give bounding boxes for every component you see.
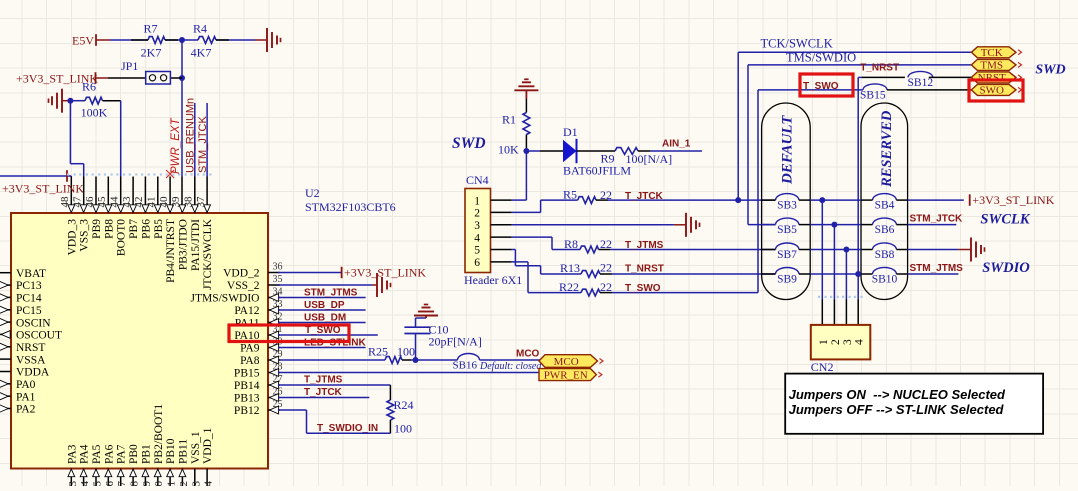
svg-text:SB3: SB3 bbox=[777, 199, 797, 211]
svg-text:AIN_1: AIN_1 bbox=[662, 139, 691, 150]
svg-text:T_SWDIO_IN: T_SWDIO_IN bbox=[317, 423, 378, 434]
svg-text:STM_JTMS: STM_JTMS bbox=[910, 263, 964, 274]
svg-text:PA3: PA3 bbox=[66, 444, 78, 464]
svg-text:PA15/JTDI: PA15/JTDI bbox=[190, 219, 202, 271]
svg-text:VSS_3: VSS_3 bbox=[79, 219, 91, 252]
svg-text:48: 48 bbox=[59, 196, 71, 208]
svg-text:41: 41 bbox=[146, 197, 158, 208]
svg-text:PB1: PB1 bbox=[140, 444, 152, 464]
svg-text:PA4: PA4 bbox=[79, 444, 91, 464]
svg-text:VDD_2: VDD_2 bbox=[223, 268, 260, 280]
svg-text:Jumpers OFF --> ST-LINK Select: Jumpers OFF --> ST-LINK Selected bbox=[789, 402, 1005, 417]
svg-text:SWCLK: SWCLK bbox=[980, 211, 1030, 227]
svg-text:VDD_1: VDD_1 bbox=[202, 427, 214, 464]
svg-text:USB_RENUMn: USB_RENUMn bbox=[185, 98, 197, 173]
svg-text:SWDIO: SWDIO bbox=[982, 260, 1030, 276]
svg-text:R4: R4 bbox=[193, 22, 207, 36]
svg-text:19: 19 bbox=[141, 481, 153, 487]
svg-text:T_JTCK: T_JTCK bbox=[304, 387, 343, 398]
svg-text:MCO: MCO bbox=[554, 356, 579, 368]
svg-text:OSCOUT: OSCOUT bbox=[16, 330, 62, 342]
svg-text:R9: R9 bbox=[601, 152, 615, 166]
svg-text:Jumpers ON --> NUCLEO Selecte: Jumpers ON --> NUCLEO Selected bbox=[789, 387, 1006, 402]
svg-text:2K7: 2K7 bbox=[141, 46, 162, 60]
svg-text:42: 42 bbox=[133, 197, 145, 208]
svg-text:STM_JTCK: STM_JTCK bbox=[197, 116, 209, 174]
svg-text:24: 24 bbox=[203, 481, 215, 487]
svg-text:18: 18 bbox=[129, 481, 141, 487]
svg-text:SB6: SB6 bbox=[875, 224, 895, 236]
svg-text:USB_DM: USB_DM bbox=[304, 313, 346, 324]
svg-text:VDDA: VDDA bbox=[16, 367, 50, 379]
svg-text:36: 36 bbox=[273, 261, 283, 272]
svg-text:PA8: PA8 bbox=[240, 355, 260, 367]
svg-text:R7: R7 bbox=[143, 22, 157, 36]
svg-text:Header 6X1: Header 6X1 bbox=[464, 273, 522, 287]
svg-text:PB14: PB14 bbox=[234, 380, 260, 392]
svg-text:VBAT: VBAT bbox=[16, 268, 46, 280]
svg-text:PWR_EXT: PWR_EXT bbox=[170, 117, 182, 174]
svg-text:21: 21 bbox=[166, 481, 178, 486]
svg-text:100: 100 bbox=[397, 345, 415, 359]
svg-text:14: 14 bbox=[79, 481, 91, 487]
svg-text:NRST: NRST bbox=[978, 72, 1006, 84]
svg-text:PA2: PA2 bbox=[16, 404, 36, 416]
svg-text:PA0: PA0 bbox=[16, 379, 36, 391]
svg-text:22: 22 bbox=[600, 237, 612, 251]
svg-text:22: 22 bbox=[600, 260, 612, 274]
svg-text:NRST: NRST bbox=[16, 342, 45, 354]
svg-text:PB3/JTDO: PB3/JTDO bbox=[177, 219, 189, 270]
svg-text:46: 46 bbox=[84, 196, 96, 208]
svg-text:35: 35 bbox=[273, 274, 283, 285]
svg-text:13: 13 bbox=[67, 481, 79, 487]
svg-text:SB15: SB15 bbox=[860, 90, 886, 102]
svg-text:22: 22 bbox=[178, 481, 190, 486]
svg-text:15: 15 bbox=[92, 481, 104, 487]
svg-text:20pF[N/A]: 20pF[N/A] bbox=[429, 335, 482, 349]
svg-text:Default: closed: Default: closed bbox=[479, 361, 542, 372]
svg-text:20: 20 bbox=[153, 481, 165, 487]
svg-text:CN2: CN2 bbox=[811, 360, 834, 374]
svg-text:44: 44 bbox=[109, 196, 121, 208]
svg-text:+3V3_ST_LINK: +3V3_ST_LINK bbox=[344, 266, 426, 280]
svg-text:PB0: PB0 bbox=[128, 444, 140, 464]
svg-text:R8: R8 bbox=[564, 237, 578, 251]
svg-text:DEFAULT: DEFAULT bbox=[780, 115, 796, 185]
svg-text:VDD_3: VDD_3 bbox=[66, 219, 78, 256]
svg-text:VSS_2: VSS_2 bbox=[227, 280, 260, 292]
svg-text:+3V3_ST_LINK: +3V3_ST_LINK bbox=[972, 193, 1054, 207]
svg-text:3: 3 bbox=[842, 339, 854, 345]
svg-text:47: 47 bbox=[71, 196, 83, 208]
svg-text:22: 22 bbox=[600, 280, 612, 294]
svg-text:STM_JTMS: STM_JTMS bbox=[304, 288, 358, 299]
svg-text:PA5: PA5 bbox=[91, 444, 103, 464]
svg-text:22: 22 bbox=[600, 188, 612, 202]
svg-text:T_JTMS: T_JTMS bbox=[304, 375, 343, 386]
svg-text:OSCIN: OSCIN bbox=[16, 317, 51, 329]
svg-text:5: 5 bbox=[474, 245, 480, 257]
svg-text:T_NRST: T_NRST bbox=[625, 264, 664, 275]
svg-text:T_JTCK: T_JTCK bbox=[625, 191, 664, 202]
svg-text:PB15: PB15 bbox=[234, 368, 260, 380]
svg-text:BOOT0: BOOT0 bbox=[116, 219, 128, 256]
svg-text:JTMS/SWDIO: JTMS/SWDIO bbox=[190, 293, 259, 305]
svg-text:PB11: PB11 bbox=[177, 439, 189, 464]
svg-text:R13: R13 bbox=[560, 261, 580, 275]
svg-text:SB9: SB9 bbox=[777, 273, 797, 285]
svg-text:PB6: PB6 bbox=[140, 219, 152, 239]
svg-text:R24: R24 bbox=[394, 398, 414, 412]
svg-text:SB5: SB5 bbox=[777, 224, 797, 236]
svg-text:45: 45 bbox=[96, 196, 108, 208]
svg-text:100: 100 bbox=[394, 422, 412, 436]
svg-text:STM32F103CBT6: STM32F103CBT6 bbox=[305, 200, 396, 214]
svg-text:PA9: PA9 bbox=[240, 343, 260, 355]
svg-text:PB4/JNTRST: PB4/JNTRST bbox=[165, 219, 177, 283]
svg-text:T_JTMS: T_JTMS bbox=[625, 240, 664, 251]
svg-text:TCK: TCK bbox=[981, 47, 1003, 59]
svg-text:17: 17 bbox=[116, 481, 128, 487]
svg-text:JP1: JP1 bbox=[121, 59, 138, 73]
svg-text:T_NRST: T_NRST bbox=[860, 63, 899, 74]
svg-text:PC15: PC15 bbox=[16, 305, 42, 317]
svg-text:R1: R1 bbox=[502, 113, 516, 127]
svg-text:40: 40 bbox=[158, 196, 170, 208]
svg-text:43: 43 bbox=[121, 196, 133, 208]
svg-text:39: 39 bbox=[170, 196, 182, 208]
svg-text:R6: R6 bbox=[82, 80, 96, 94]
svg-text:VSSA: VSSA bbox=[16, 354, 46, 366]
svg-text:TMS: TMS bbox=[980, 60, 1003, 72]
svg-text:CN4: CN4 bbox=[466, 173, 489, 187]
svg-text:4: 4 bbox=[854, 339, 866, 345]
svg-text:PB10: PB10 bbox=[165, 438, 177, 464]
svg-text:SWD: SWD bbox=[1035, 62, 1065, 77]
svg-text:MCO: MCO bbox=[516, 349, 540, 360]
svg-text:D1: D1 bbox=[563, 125, 578, 139]
svg-text:100K: 100K bbox=[81, 106, 108, 120]
svg-text:PA1: PA1 bbox=[16, 391, 36, 403]
svg-text:1: 1 bbox=[474, 195, 480, 207]
svg-text:16: 16 bbox=[104, 481, 116, 487]
svg-text:U2: U2 bbox=[305, 186, 320, 200]
svg-text:2: 2 bbox=[830, 339, 842, 345]
svg-text:PA12: PA12 bbox=[234, 305, 259, 317]
svg-text:4: 4 bbox=[474, 232, 480, 244]
svg-text:38: 38 bbox=[183, 196, 195, 208]
svg-text:10K: 10K bbox=[498, 142, 519, 156]
svg-text:E5V: E5V bbox=[72, 33, 94, 47]
svg-text:R5: R5 bbox=[563, 188, 577, 202]
svg-text:PB12: PB12 bbox=[234, 405, 260, 417]
svg-text:PA7: PA7 bbox=[116, 444, 128, 464]
svg-text:1: 1 bbox=[818, 339, 830, 345]
svg-text:PC14: PC14 bbox=[16, 293, 42, 305]
svg-text:STM_JTCK: STM_JTCK bbox=[910, 214, 964, 225]
svg-text:VSS_1: VSS_1 bbox=[190, 431, 202, 464]
svg-text:PB9: PB9 bbox=[91, 219, 103, 239]
svg-text:T_SWO: T_SWO bbox=[305, 325, 341, 336]
svg-text:R25: R25 bbox=[368, 345, 388, 359]
svg-text:PC13: PC13 bbox=[16, 280, 42, 292]
svg-text:PB2/BOOT1: PB2/BOOT1 bbox=[153, 404, 165, 464]
svg-text:SWO: SWO bbox=[979, 85, 1004, 97]
svg-text:TMS/SWDIO: TMS/SWDIO bbox=[786, 51, 856, 65]
svg-text:JTCK/SWCLK: JTCK/SWCLK bbox=[202, 218, 214, 290]
svg-text:100[N/A]: 100[N/A] bbox=[626, 152, 673, 166]
svg-text:SB8: SB8 bbox=[875, 249, 895, 261]
svg-text:T_SWO: T_SWO bbox=[803, 81, 839, 92]
svg-text:SB12: SB12 bbox=[908, 77, 934, 89]
svg-text:+3V3_ST_LINK: +3V3_ST_LINK bbox=[2, 181, 84, 195]
svg-text:TCK/SWCLK: TCK/SWCLK bbox=[761, 36, 833, 50]
svg-text:PB8: PB8 bbox=[103, 219, 115, 239]
svg-text:SB16: SB16 bbox=[453, 360, 478, 372]
svg-text:PA6: PA6 bbox=[103, 444, 115, 464]
svg-text:T_SWO: T_SWO bbox=[625, 283, 661, 294]
svg-text:37: 37 bbox=[195, 196, 207, 208]
svg-text:RESERVED: RESERVED bbox=[879, 110, 895, 188]
svg-text:PB5: PB5 bbox=[153, 219, 165, 239]
svg-text:BAT60JFILM: BAT60JFILM bbox=[563, 164, 631, 178]
svg-text:3: 3 bbox=[474, 220, 480, 232]
svg-text:23: 23 bbox=[190, 481, 202, 487]
svg-text:USB_DP: USB_DP bbox=[304, 300, 345, 311]
svg-text:PWR_EN: PWR_EN bbox=[544, 369, 588, 381]
svg-text:6: 6 bbox=[474, 257, 480, 269]
svg-text:SB7: SB7 bbox=[777, 249, 797, 261]
svg-text:PB13: PB13 bbox=[234, 393, 260, 405]
svg-text:4K7: 4K7 bbox=[191, 46, 212, 60]
svg-text:PB7: PB7 bbox=[128, 219, 140, 239]
svg-text:R22: R22 bbox=[559, 280, 579, 294]
svg-text:SWD: SWD bbox=[452, 135, 486, 152]
svg-text:2: 2 bbox=[474, 208, 480, 220]
svg-text:SB4: SB4 bbox=[875, 199, 895, 211]
svg-text:SB10: SB10 bbox=[872, 273, 898, 285]
